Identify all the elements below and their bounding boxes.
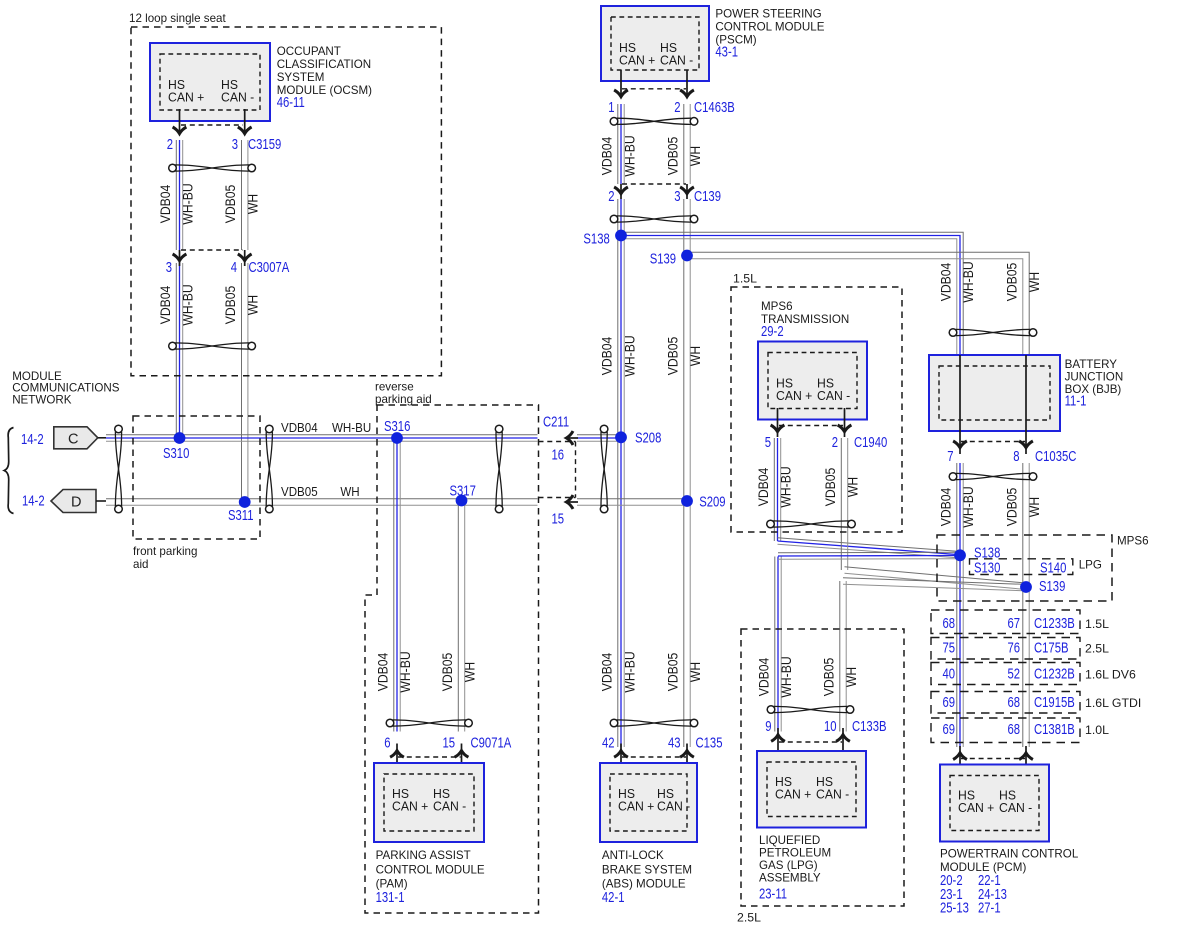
off-page connector flag D — [51, 490, 96, 513]
wire: CAN- bus from C211 arrow to splice S209 — [577, 499, 687, 505]
wire: LPG run to splice S139 — [843, 578, 1023, 591]
svg-text:VDB05: VDB05 — [222, 286, 238, 325]
svg-text:69: 69 — [942, 694, 955, 711]
svg-text:CAN +: CAN + — [958, 801, 994, 815]
dashed box: 12 loop single seat — [131, 27, 441, 376]
svg-text:WH-BU: WH-BU — [960, 486, 976, 527]
svg-text:CAN +: CAN + — [168, 90, 204, 104]
svg-text:LPG: LPG — [1079, 559, 1102, 572]
splice S316 on CAN+ bus — [391, 432, 403, 444]
svg-text:CONTROL MODULE: CONTROL MODULE — [376, 863, 485, 876]
svg-text:WH: WH — [687, 662, 703, 682]
svg-text:WH: WH — [1026, 497, 1042, 517]
twisted pair symbol PAM — [386, 719, 472, 727]
svg-text:WH: WH — [462, 662, 478, 682]
connector C135 pins 42 and 43 — [620, 744, 622, 776]
svg-text:WH: WH — [340, 484, 359, 499]
svg-text:14-2: 14-2 — [22, 492, 45, 509]
svg-text:2: 2 — [832, 434, 838, 451]
svg-text:42-1: 42-1 — [602, 889, 625, 906]
svg-text:VDB04: VDB04 — [157, 185, 173, 224]
svg-text:CAN -: CAN - — [657, 799, 690, 813]
svg-text:CONTROL MODULE: CONTROL MODULE — [715, 21, 824, 34]
svg-text:12 loop single seat: 12 loop single seat — [129, 12, 226, 25]
svg-text:4: 4 — [231, 259, 237, 276]
svg-text:29-2: 29-2 — [761, 323, 784, 340]
twisted pair symbol on bus in front parking aid box — [266, 425, 274, 513]
svg-text:WH-BU: WH-BU — [397, 651, 413, 692]
svg-text:VDB05: VDB05 — [1004, 488, 1020, 527]
svg-text:WH-BU: WH-BU — [778, 656, 794, 697]
twisted pair symbol below BJB — [949, 473, 1037, 481]
wire: OCSM HS CAN+ VDB04 WH-BU vertical (pin 2 to S310) — [176, 140, 182, 250]
svg-text:GAS (LPG): GAS (LPG) — [759, 859, 818, 872]
pin 15 arrow into C211 (CAN-) — [566, 501, 578, 503]
pin 16 arrow into C211 (CAN+) — [566, 437, 578, 439]
wire: BJB pin 8 down through splice S139 to PCM (VDB05 WH) — [1023, 463, 1029, 747]
svg-text:23-11: 23-11 — [759, 885, 787, 902]
svg-text:VDB05: VDB05 — [1004, 263, 1020, 302]
svg-text:CLASSIFICATION: CLASSIFICATION — [277, 58, 371, 71]
svg-text:8: 8 — [1013, 448, 1019, 465]
wire: CAN+ bus from connector C to in-line connector C211 — [106, 435, 538, 441]
svg-text:C1381B: C1381B — [1034, 721, 1075, 738]
svg-text:C1463B: C1463B — [694, 99, 735, 116]
svg-text:CAN -: CAN - — [999, 801, 1032, 815]
svg-text:VDB04: VDB04 — [157, 286, 173, 325]
svg-text:VDB05: VDB05 — [222, 185, 238, 224]
in-line connector C1233B (1.5L) pins 68 and 67 — [931, 610, 1080, 634]
svg-text:C135: C135 — [696, 734, 723, 751]
svg-text:C1232B: C1232B — [1034, 665, 1075, 682]
svg-text:WH-BU: WH-BU — [778, 466, 794, 507]
svg-text:D: D — [71, 495, 81, 511]
splice S139 lower — [1020, 581, 1032, 593]
svg-text:MPS6: MPS6 — [1117, 535, 1149, 548]
svg-text:C3159: C3159 — [248, 136, 281, 153]
svg-text:S138: S138 — [583, 230, 609, 247]
off-page connector flag C — [54, 427, 98, 449]
svg-text:27-1: 27-1 — [978, 899, 1001, 916]
svg-text:WH-BU: WH-BU — [622, 651, 638, 692]
svg-text:2.5L: 2.5L — [737, 911, 761, 925]
svg-text:68: 68 — [942, 615, 955, 632]
wire: MPS6 diagonal to splice S139 — [845, 567, 1024, 589]
svg-text:ASSEMBLY: ASSEMBLY — [759, 872, 821, 885]
svg-text:C133B: C133B — [852, 718, 887, 735]
svg-text:C1940: C1940 — [854, 434, 887, 451]
connector pins into engine variant connectors from PCM — [959, 746, 961, 776]
twisted pair symbol on bus right of S317 — [495, 425, 503, 513]
svg-text:S311: S311 — [228, 507, 254, 524]
svg-text:reverse: reverse — [375, 381, 414, 394]
twisted pair symbol on bus left of S208 — [600, 425, 608, 513]
wire: S317 branch down to PAM pin 15 (VDB05 WH) — [458, 501, 464, 732]
in-line connector C1232B (1.6L DV6) pins 40 and 52 — [931, 663, 1080, 685]
svg-text:CAN -: CAN - — [817, 389, 850, 403]
twisted pair symbol OCSM upper — [169, 164, 256, 172]
svg-text:POWER STEERING: POWER STEERING — [715, 8, 821, 21]
svg-text:C3007A: C3007A — [249, 259, 290, 276]
in-line connector C211 dashed box — [575, 442, 577, 498]
wire: MPS6 pin 5 vertical VDB04 WH-BU — [774, 438, 780, 541]
dashed box: front parking aid — [133, 416, 260, 539]
module: Battery Junction Box (BJB) — [929, 355, 1060, 431]
svg-text:WH-BU: WH-BU — [180, 183, 196, 224]
svg-text:OCCUPANT: OCCUPANT — [277, 45, 341, 58]
svg-text:C211: C211 — [543, 413, 569, 430]
svg-text:WH-BU: WH-BU — [332, 420, 371, 435]
svg-text:S130: S130 — [974, 559, 1000, 576]
svg-text:15: 15 — [552, 510, 565, 527]
connector C133B pins 9 and 10 — [777, 728, 779, 761]
dashed box: 2.5L LPG assembly group — [741, 629, 904, 906]
wire: LPG pin 10 vertical VDB05 WH — [840, 581, 846, 732]
svg-text:CAN -: CAN - — [660, 53, 693, 67]
svg-text:VDB05: VDB05 — [665, 653, 681, 692]
splice S311 on CAN- bus — [239, 496, 251, 508]
dashed box: reverse parking aid (jogged outline) — [365, 405, 539, 913]
svg-text:C: C — [68, 432, 78, 448]
svg-text:WH-BU: WH-BU — [180, 284, 196, 325]
svg-text:68: 68 — [1007, 694, 1020, 711]
svg-text:PARKING ASSIST: PARKING ASSIST — [376, 849, 471, 862]
svg-text:S316: S316 — [384, 418, 410, 435]
svg-text:S208: S208 — [635, 429, 661, 446]
svg-text:CAN +: CAN + — [619, 53, 655, 67]
svg-text:VDB04: VDB04 — [599, 137, 615, 176]
svg-text:S317: S317 — [450, 482, 476, 499]
svg-text:67: 67 — [1007, 615, 1020, 632]
svg-text:1.6L DV6: 1.6L DV6 — [1085, 668, 1136, 682]
connector C1463B pins 1 and 2 — [620, 70, 622, 96]
svg-text:ANTI-LOCK: ANTI-LOCK — [602, 849, 664, 862]
svg-text:69: 69 — [942, 721, 955, 738]
svg-text:VDB04: VDB04 — [755, 468, 771, 507]
twisted pair symbol MPS6 — [767, 520, 856, 528]
svg-text:WH: WH — [845, 477, 861, 497]
svg-text:43-1: 43-1 — [715, 43, 738, 60]
svg-text:WH: WH — [245, 194, 261, 214]
module U5: Anti-Lock Brake System (ABS) Module — [600, 763, 697, 842]
svg-text:WH-BU: WH-BU — [960, 261, 976, 302]
in-line connector C1915B (1.6L GTDI) pins 69 and 68 — [931, 692, 1080, 714]
svg-text:aid: aid — [133, 558, 148, 571]
svg-text:S209: S209 — [699, 493, 725, 510]
svg-text:CAN +: CAN + — [775, 787, 811, 801]
svg-text:VDB05: VDB05 — [665, 337, 681, 376]
splice S317 on CAN- bus — [456, 495, 468, 507]
svg-text:BATTERY: BATTERY — [1065, 358, 1118, 371]
svg-text:C175B: C175B — [1034, 639, 1069, 656]
in-line connector C139 pins 2 and 3 — [622, 183, 686, 185]
svg-text:CAN +: CAN + — [618, 799, 654, 813]
connector C1940 pins 5 and 2 — [777, 408, 779, 437]
svg-text:6: 6 — [384, 734, 390, 751]
splice S310 on CAN+ bus — [174, 432, 186, 444]
svg-text:S139: S139 — [1039, 578, 1065, 595]
svg-text:VDB05: VDB05 — [439, 653, 455, 692]
svg-text:CAN -: CAN - — [221, 90, 254, 104]
svg-text:WH: WH — [245, 295, 261, 315]
twisted pair symbol above BJB — [949, 329, 1037, 337]
svg-text:1: 1 — [608, 99, 614, 116]
svg-text:2: 2 — [674, 99, 680, 116]
svg-text:VDB04: VDB04 — [599, 337, 615, 376]
svg-text:S310: S310 — [163, 445, 189, 462]
svg-text:14-2: 14-2 — [21, 431, 44, 448]
wire: PSCM vertical VDB04 WH-BU (pin 1 through S138 down to ABS pin 42) — [618, 104, 624, 184]
svg-text:NETWORK: NETWORK — [12, 393, 72, 406]
wire: OCSM HS CAN- VDB05 WH vertical (pin 3 to S311) — [242, 140, 248, 250]
wire: S316 branch down to PAM pin 6 (VDB04 WH-BU) — [394, 438, 400, 732]
svg-text:3: 3 — [232, 136, 238, 153]
module U6: Liquefied Petroleum Gas (LPG) Assembly — [757, 751, 866, 828]
svg-text:75: 75 — [942, 639, 955, 656]
svg-text:1.0L: 1.0L — [1085, 723, 1109, 737]
module U2: Power Steering Control Module (PSCM) — [601, 6, 709, 81]
svg-text:POWERTRAIN CONTROL: POWERTRAIN CONTROL — [940, 848, 1079, 861]
svg-text:VDB05: VDB05 — [822, 468, 838, 507]
wire: MPS6 pin 2 vertical VDB05 WH — [841, 438, 847, 570]
svg-text:52: 52 — [1007, 665, 1020, 682]
svg-text:VDB04: VDB04 — [599, 653, 615, 692]
twisted pair symbol ABS — [610, 719, 698, 727]
svg-text:3: 3 — [674, 188, 680, 205]
svg-text:2: 2 — [167, 136, 173, 153]
svg-text:1.5L: 1.5L — [733, 272, 757, 286]
svg-text:25-13: 25-13 — [940, 899, 969, 916]
svg-text:1.6L GTDI: 1.6L GTDI — [1085, 696, 1141, 710]
svg-text:2: 2 — [608, 188, 614, 205]
splice S138 upper — [615, 230, 627, 242]
svg-text:9: 9 — [765, 718, 771, 735]
svg-text:7: 7 — [947, 448, 953, 465]
svg-text:SYSTEM: SYSTEM — [277, 71, 325, 84]
svg-text:2.5L: 2.5L — [1085, 642, 1109, 656]
svg-text:3: 3 — [166, 259, 172, 276]
svg-text:10: 10 — [824, 718, 837, 735]
splice S209 junction with PSCM trunk — [681, 495, 693, 507]
connector C9071A pins 6 and 15 — [396, 744, 398, 776]
connector C3159 pins 2 and 3 — [179, 109, 181, 133]
svg-text:VDB05: VDB05 — [281, 484, 318, 499]
svg-text:VDB05: VDB05 — [821, 658, 837, 697]
svg-text:C1915B: C1915B — [1034, 694, 1075, 711]
svg-text:parking aid: parking aid — [375, 393, 432, 406]
svg-text:VDB04: VDB04 — [938, 488, 954, 527]
svg-text:CAN +: CAN + — [776, 389, 812, 403]
dashed box: 1.5L MPS6 transmission group — [731, 287, 902, 532]
svg-text:WH-BU: WH-BU — [622, 135, 638, 176]
svg-text:S140: S140 — [1040, 559, 1066, 576]
in-line connector C3007A pins 3 and 4 — [181, 249, 243, 251]
splice S208 junction with PSCM trunk — [615, 431, 627, 443]
module U7: Powertrain Control Module (PCM) — [940, 765, 1049, 842]
svg-text:VDB04: VDB04 — [375, 653, 391, 692]
wire: CAN- bus from connector D to in-line connector C211 — [106, 499, 538, 505]
svg-text:BRAKE SYSTEM: BRAKE SYSTEM — [602, 863, 692, 876]
svg-text:C1233B: C1233B — [1034, 615, 1075, 632]
svg-text:C1035C: C1035C — [1035, 448, 1076, 465]
svg-text:40: 40 — [942, 665, 955, 682]
twisted pair symbol on bus near flags — [115, 425, 123, 513]
svg-text:C9071A: C9071A — [471, 734, 512, 751]
BJB internal feed-through wires and connector C1035C pins 7 and 8 — [959, 355, 961, 454]
svg-text:76: 76 — [1007, 639, 1020, 656]
dashed box: MPS6 splice group S138/S139 — [937, 535, 1112, 601]
svg-text:5: 5 — [765, 434, 771, 451]
module U1: Occupant Classification System Module (OCSM) — [150, 43, 270, 121]
twisted pair symbol PSCM lower — [610, 215, 698, 223]
wire: S139 to battery junction box corner run (VDB05 WH) — [687, 252, 1029, 355]
wire: LPG pin 9 vertical VDB04 WH-BU — [775, 557, 781, 732]
svg-text:68: 68 — [1007, 721, 1020, 738]
svg-text:VDB04: VDB04 — [756, 658, 772, 697]
svg-text:CAN +: CAN + — [392, 799, 428, 813]
in-line connector C175B (2.5L) pins 75 and 76 — [931, 638, 1080, 660]
svg-text:42: 42 — [602, 734, 615, 751]
wire: LPG horizontal run to splice S138 — [778, 552, 957, 559]
svg-text:11-1: 11-1 — [1065, 392, 1087, 409]
wire: BJB pin 7 down through splice S138 to PCM (VDB04 WH-BU) — [957, 463, 963, 747]
svg-text:WH: WH — [687, 146, 703, 166]
wire: MPS6 diagonal to splice S138 — [778, 538, 958, 558]
in-line connector C1381B (1.0L) pins 69 and 68 — [931, 718, 1080, 743]
svg-text:CAN -: CAN - — [816, 787, 849, 801]
svg-text:1.5L: 1.5L — [1085, 617, 1109, 631]
svg-text:16: 16 — [552, 446, 565, 463]
svg-text:WH: WH — [843, 667, 859, 687]
svg-text:VDB05: VDB05 — [665, 137, 681, 176]
twisted pair symbol PSCM upper — [610, 118, 698, 126]
twisted pair symbol LPG — [767, 706, 854, 714]
wire: S138 to battery junction box corner run (VDB04 WH-BU) — [622, 232, 963, 355]
twisted pair symbol OCSM lower — [169, 342, 256, 350]
svg-text:front parking: front parking — [133, 545, 197, 558]
svg-text:S139: S139 — [650, 250, 676, 267]
svg-text:MPS6: MPS6 — [761, 300, 793, 313]
svg-text:VDB04: VDB04 — [938, 263, 954, 302]
wire: CAN+ bus from C211 arrow to splice S208 — [577, 435, 621, 441]
svg-text:46-11: 46-11 — [277, 94, 305, 111]
module U4: Parking Assist Control Module (PAM) — [374, 763, 484, 842]
svg-text:WH-BU: WH-BU — [622, 335, 638, 376]
splice S138 lower — [954, 549, 966, 561]
dashed box: LPG splice group S130/S140 — [970, 559, 1073, 575]
svg-text:LIQUEFIED: LIQUEFIED — [759, 834, 820, 847]
svg-text:C139: C139 — [694, 188, 721, 205]
svg-text:43: 43 — [668, 734, 681, 751]
svg-text:CAN -: CAN - — [433, 799, 466, 813]
brace bracket for off-page connectors — [4, 428, 13, 514]
svg-text:WH: WH — [1026, 272, 1042, 292]
svg-text:JUNCTION: JUNCTION — [1065, 371, 1124, 384]
wire: PSCM vertical VDB05 WH (pin 2 through S139 down to ABS pin 43) — [684, 104, 690, 184]
svg-text:WH: WH — [687, 346, 703, 366]
svg-text:15: 15 — [442, 734, 455, 751]
svg-text:PETROLEUM: PETROLEUM — [759, 847, 831, 860]
svg-text:131-1: 131-1 — [376, 889, 405, 906]
svg-text:VDB04: VDB04 — [281, 420, 318, 435]
splice S139 upper — [681, 250, 693, 262]
